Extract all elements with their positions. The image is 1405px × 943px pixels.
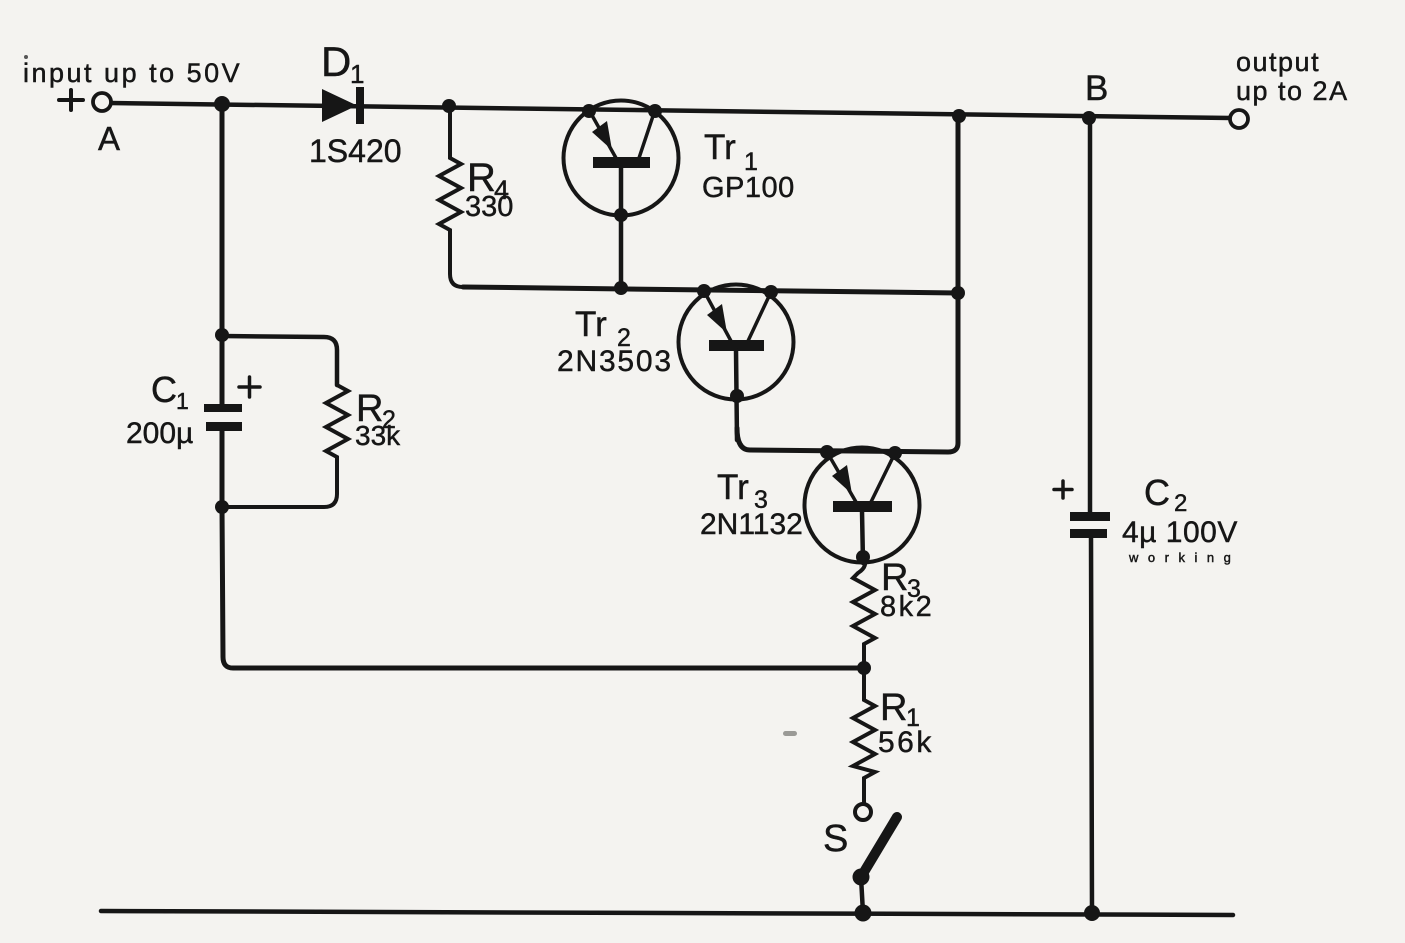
svg-text:2N3503: 2N3503 (557, 345, 673, 378)
svg-text:working: working (1128, 550, 1240, 565)
wire left vertical from C1 down and right to R3/R1 junction (222, 431, 864, 668)
D1 cathode bar (356, 87, 364, 124)
Tr2 body circle (679, 285, 794, 400)
svg-text:33k: 33k (355, 420, 401, 451)
Tr3 base lead wire (862, 511, 863, 563)
junction C1 top dot (215, 328, 229, 342)
junction node A dot (214, 96, 230, 112)
label + input polarity (59, 90, 83, 110)
svg-text:Tr: Tr (704, 128, 736, 167)
Tr2 base bar (709, 340, 764, 351)
wire switch to bottom rail (861, 877, 863, 913)
svg-text:output: output (1236, 47, 1320, 77)
svg-text:Tr: Tr (575, 305, 607, 344)
wire left vertical from node A down to C1 (220, 104, 225, 404)
transistor Tr2 (679, 284, 794, 440)
Tr2 collector junction dot (764, 285, 778, 299)
label R3 8k2 (880, 557, 934, 623)
label C1 (151, 369, 189, 414)
label output up to 2A (1236, 47, 1349, 106)
label C2 value 4u 100V working (1122, 516, 1240, 565)
Tr3 base bar (833, 501, 892, 512)
Tr1 base lead dot on circle (614, 208, 628, 222)
D1 anode triangle (322, 89, 357, 122)
paper smudge (783, 731, 797, 736)
svg-text:1: 1 (176, 388, 189, 414)
Tr1 body circle (564, 101, 679, 216)
C2 bottom plate (1070, 529, 1107, 538)
Tr3 base lead dot on circle (856, 550, 870, 564)
Tr2 collector lead (748, 292, 771, 341)
diode D1 (322, 87, 364, 124)
svg-text:A: A (98, 120, 120, 157)
Tr3 body circle (805, 448, 920, 563)
Tr3 collector junction dot (888, 446, 902, 460)
junction right vertical / second rail dot (951, 286, 965, 300)
junction R3/R1 dot (857, 661, 871, 675)
wire second rail from R4 bottom to right vertical (463, 287, 958, 293)
label Tr3 2N1132 (700, 468, 803, 541)
label Tr2 2N3503 (557, 305, 673, 378)
svg-text:330: 330 (465, 191, 513, 223)
transistor Tr1 (564, 101, 679, 289)
resistor R3 (853, 557, 875, 668)
capacitor C1 (204, 404, 242, 431)
label R2 33k (355, 388, 401, 451)
junction Tr1 base / second rail dot (614, 281, 628, 295)
svg-text:1: 1 (350, 59, 364, 89)
svg-text:200µ: 200µ (126, 417, 193, 450)
resistor R1 (853, 668, 875, 805)
Tr1 emitter arrow (592, 121, 612, 150)
svg-text:4µ 100V: 4µ 100V (1122, 516, 1238, 549)
Tr1 collector lead (639, 110, 655, 158)
Tr3 emitter lead (827, 452, 856, 502)
paper speck (24, 55, 28, 59)
junction right vertical top dot (952, 109, 966, 123)
svg-text:C: C (151, 369, 177, 410)
terminal output (1230, 110, 1248, 128)
Tr1 collector junction dot (648, 104, 662, 118)
Tr1 base lead wire (619, 167, 624, 288)
svg-text:8k2: 8k2 (880, 591, 934, 623)
svg-text:R: R (880, 687, 907, 729)
Tr2 emitter lead (704, 291, 731, 341)
label D1 (321, 38, 364, 89)
wire C2 vertical top (1088, 118, 1093, 512)
wire top rail from input terminal to output terminal (110, 103, 1231, 118)
Tr3 collector lead (871, 453, 895, 502)
wire R2 branch top (222, 336, 337, 385)
label C2 (1144, 472, 1187, 517)
Tr1 emitter junction dot (582, 104, 596, 118)
label Tr1 GP100 (702, 128, 795, 204)
Tr2 emitter arrow (707, 304, 727, 333)
terminal input + (93, 93, 111, 111)
svg-text:2N1132: 2N1132 (700, 508, 803, 541)
wire bottom rail (101, 911, 1233, 915)
svg-text:2: 2 (1174, 490, 1187, 517)
junction switch / bottom rail dot (855, 905, 872, 922)
transistor Tr3 (805, 445, 920, 564)
C1 top plate (+) (204, 404, 242, 412)
Tr1 base bar (593, 157, 650, 168)
wire C2 bottom to rail (1091, 538, 1092, 913)
svg-text:up to 2A: up to 2A (1236, 76, 1349, 106)
resistor R4 (439, 106, 463, 287)
label R1 56k (878, 687, 934, 759)
svg-text:D: D (321, 38, 351, 85)
Tr2 base lead wire (736, 350, 737, 440)
svg-text:1S420: 1S420 (309, 133, 402, 169)
svg-text:C: C (1144, 472, 1170, 513)
junction C2 / bottom rail dot (1084, 905, 1100, 921)
C1 + polarity mark (239, 377, 260, 397)
Tr3 emitter junction dot (820, 445, 834, 459)
svg-text:input up to 50V: input up to 50V (23, 58, 242, 88)
node B dot (1082, 111, 1096, 125)
capacitor C2 (1070, 512, 1110, 538)
Tr1 emitter lead (589, 110, 616, 158)
Tr2 base lead dot on circle (730, 389, 744, 403)
switch S pivot dot (853, 869, 870, 886)
switch S arm (861, 817, 897, 877)
resistor R2 (222, 385, 348, 507)
svg-text:S: S (823, 818, 848, 860)
Tr2 emitter junction dot (697, 284, 711, 298)
junction R4 top dot (442, 99, 456, 113)
svg-text:56k: 56k (878, 726, 934, 759)
junction C1 bottom dot (215, 500, 229, 514)
C2 top plate (+) (1070, 512, 1110, 521)
label R4 (465, 156, 513, 223)
svg-text:B: B (1085, 69, 1108, 108)
C1 bottom plate (206, 422, 242, 431)
svg-text:Tr: Tr (717, 468, 749, 507)
svg-text:GP100: GP100 (702, 172, 795, 204)
switch S contact circle (855, 804, 871, 820)
C2 + polarity mark (1054, 481, 1072, 498)
wire Tr2 base down and right to Tr3 top rail (737, 117, 958, 452)
Tr3 emitter arrow (832, 465, 852, 494)
